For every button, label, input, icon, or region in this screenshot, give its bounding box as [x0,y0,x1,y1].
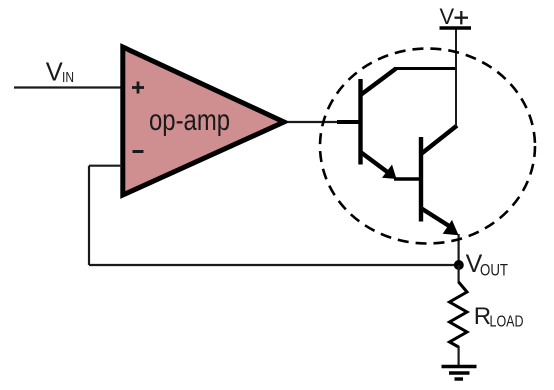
wire: op-amp output [288,121,345,123]
ground [442,367,477,380]
svg-text:V: V [440,4,455,29]
transistor Q1 base lead [337,120,359,124]
op-amp plus input mark [132,82,144,94]
transistor Q1 collector [361,69,397,96]
svg-text:IN: IN [62,70,74,86]
transistor Q2 base bar [419,137,423,222]
svg-text:LOAD: LOAD [490,313,524,330]
dashed circle around Darlington pair [320,49,535,244]
wire: V+ rail vertical [455,29,457,127]
op-amp minus input mark [133,150,144,153]
wire: VOUT to resistor [458,265,460,283]
wire: resistor to ground [458,346,460,366]
wire: VIN input to op-amp + [14,86,122,88]
wire: Q1 emitter to Q2 base [394,177,420,181]
wire: feedback vertical [88,166,90,265]
op-amp U1 [123,47,284,195]
wire: Q1 collector to V+ rail [394,67,456,70]
power V+ bar [440,26,472,29]
svg-text:OUT: OUT [480,261,508,280]
svg-text:V: V [46,59,63,87]
transistor Q1 base bar [358,79,362,165]
resistor RLOAD [450,282,468,347]
wire: op-amp minus input [89,165,122,167]
wire: Q2 emitter to VOUT node [458,234,460,270]
wire: feedback horizontal to VOUT [89,264,459,266]
transistor Q1 emitter with arrow [361,152,393,176]
svg-text:op-amp: op-amp [149,104,230,137]
node VOUT junction dot [454,260,464,270]
transistor Q2 emitter with arrow [422,209,453,228]
transistor Q2 collector [421,126,457,155]
